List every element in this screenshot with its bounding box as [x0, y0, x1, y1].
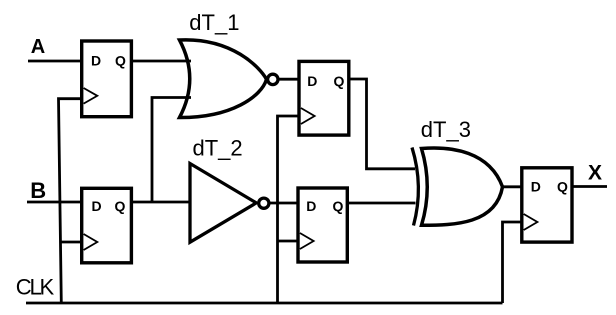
svg-text:B: B: [30, 178, 46, 203]
svg-text:CLK: CLK: [16, 275, 55, 300]
svg-text:D: D: [307, 73, 317, 89]
svg-text:Q: Q: [333, 198, 344, 214]
svg-text:dT_2: dT_2: [193, 135, 243, 160]
svg-text:dT_1: dT_1: [189, 10, 239, 35]
svg-text:Q: Q: [115, 53, 126, 69]
svg-text:X: X: [588, 162, 602, 185]
svg-text:Q: Q: [334, 73, 345, 89]
svg-text:Q: Q: [557, 179, 568, 195]
svg-text:D: D: [531, 179, 541, 195]
svg-text:D: D: [91, 53, 101, 69]
svg-text:D: D: [306, 198, 316, 214]
svg-text:A: A: [31, 36, 45, 58]
svg-text:dT_3: dT_3: [421, 117, 471, 142]
svg-text:Q: Q: [115, 198, 126, 214]
svg-text:D: D: [92, 198, 102, 214]
